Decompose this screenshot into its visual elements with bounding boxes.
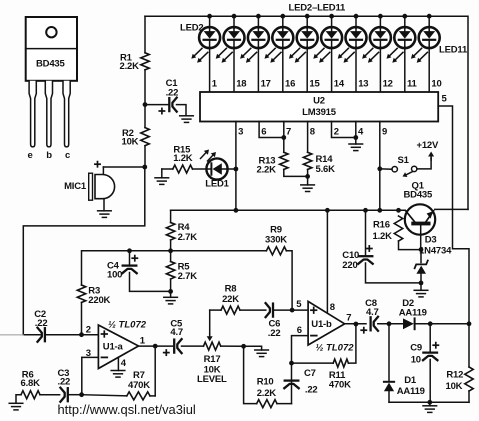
wire R13 bottom to R14 bottom [284,169,308,176]
svg-text:220K: 220K [88,295,110,306]
wire LED7 cathode to U2 pin [331,47,333,92]
wire mic branch down-left to C2 [23,167,145,335]
wire detector bottom rail [389,401,469,403]
wire U2 pin8 down [307,122,309,153]
wire U1-a output line [139,345,173,347]
LED1 emission arrows [201,153,206,159]
capacitor C4 100 [123,264,137,266]
resistor R9 330K [266,247,286,255]
node LED8 anode on bus [354,14,359,19]
node R1/R2/C1 [143,102,148,107]
ground below R5 [164,296,178,298]
wire U1-a inverting input [82,356,99,358]
svg-text:470K: 470K [128,380,150,391]
diode D1 AA119 [384,382,394,403]
svg-text:.22: .22 [268,328,281,339]
capacitor C5 4.7 [173,340,175,353]
wire bus to LED7 [331,16,333,28]
wire D3 to ground [420,283,422,290]
wire R3 bottom to pin2 line [81,302,83,334]
svg-text:8: 8 [310,127,315,138]
wire R10 to C7 bottom [277,403,292,405]
wire C5 to level pot [182,345,204,347]
wire pot to ground stub [221,345,244,347]
wire U2 pin5 to detector output (jog on right side) [438,106,469,324]
diode D2 AA119 [403,318,415,329]
wire bus to LED11 [428,16,430,28]
svg-text:LED2: LED2 [180,23,203,34]
svg-text:9: 9 [382,127,387,138]
wire U2 pin6 to pin7 [259,122,284,138]
ground below D3 [414,289,428,291]
wire C9 top [429,324,431,352]
svg-text:½ TL072: ½ TL072 [316,343,355,354]
op-amp driver IC U2 LM3915 box [200,92,438,122]
resistor R6 6.8K [21,391,40,399]
node Q1 base / D3 [419,247,424,252]
resistor R8 22K [221,306,240,314]
wire C8 to D2 [378,323,403,325]
svg-text:AA119: AA119 [397,386,425,397]
resistor R15 1.2K [173,165,193,173]
node R17/R10/ground [241,344,246,349]
node C3/R7 [79,392,84,397]
node R2/MIC1 [142,165,147,170]
wire feedback from output node down to R7 [154,346,156,396]
LED LED1 (points left) [206,158,227,179]
wire U2 pin9 down to S1 node and rail [379,122,381,211]
wire C10 top [365,210,367,255]
svg-text:U1-b: U1-b [311,319,332,330]
svg-text:c: c [65,150,70,161]
wire LED1 to pin3 column [227,168,236,170]
capacitor C8 4.7 [369,317,371,330]
wire node to ground [244,346,262,350]
svg-text:R8: R8 [225,284,237,295]
svg-text:D1: D1 [404,375,417,386]
svg-text:LED1: LED1 [205,179,229,190]
node LED6 anode on bus [305,14,310,19]
wire R15 ground stub [161,169,163,178]
wire S1 to +12V arrow [417,158,431,169]
wire wiper up and right to R8 [210,309,221,311]
LED LED3 [216,27,245,63]
svg-text:AA119: AA119 [399,307,427,318]
wire LED9 cathode to U2 pin [379,47,381,92]
svg-text:1: 1 [140,336,146,347]
wire LED3 cathode to U2 pin [233,47,235,92]
svg-text:.22: .22 [35,318,48,329]
svg-text:22K: 22K [222,294,239,305]
wire rail corner down to R4 [170,210,172,222]
svg-text:18: 18 [236,79,246,90]
svg-text:3: 3 [86,348,91,359]
svg-text:2.2K: 2.2K [257,164,277,175]
wire U1-b inverting input [292,336,309,404]
resistor R11 470K [333,359,348,367]
svg-text:8: 8 [330,302,335,313]
ground below C1 [180,115,194,117]
resistor R5 2.7K [166,262,174,280]
wire bus to LED2 [209,16,211,28]
transistor package drawing BD435 (TO-126 outline) [26,17,77,161]
wire U1-a pin4 to ground [117,358,119,371]
svg-text:16: 16 [285,79,295,90]
wire R9 right end down to U1-b pin5 node [286,251,292,310]
resistor R3 220K [77,285,85,302]
svg-text:MIC1: MIC1 [64,181,87,192]
resistor R4 2.7K [166,223,174,241]
wire LED10 cathode to U2 pin [404,47,406,92]
svg-text:4: 4 [121,358,127,369]
node LED7 anode on bus [329,14,334,19]
svg-text:1.2K: 1.2K [373,231,393,242]
wire C6 to U1-b pin5 [274,309,308,311]
node bottom rail ground [427,400,432,405]
wire LED anode bus (top) from R1 column to right edge down to Q1 emitter [145,16,468,209]
node R11/C7 feedback [289,361,294,366]
wire bus to LED8 [355,16,357,28]
wire R7 right lead [150,395,155,397]
wire C9 bottom to rail [429,360,431,403]
wire LED6 cathode to U2 pin [306,47,308,92]
svg-text:http://www.qsl.net/va3iul: http://www.qsl.net/va3iul [58,402,196,417]
wire R1 to C1 node [144,70,146,128]
wire C4 bottom to R5 bottom [130,273,171,292]
node C4 top [127,248,132,253]
potentiometer R17 10K LEVEL [204,342,221,350]
wire C1 node to cap [145,104,169,106]
LED LED10 [387,27,416,63]
svg-text:330K: 330K [265,235,287,246]
svg-text:2.2K: 2.2K [257,388,277,399]
wire U2 pin3 down to supply rail [235,122,237,211]
node LED9 anode on bus [378,14,383,19]
LED LED8 [338,27,367,63]
capacitor C9 10 [423,351,437,353]
svg-text:.22: .22 [305,385,318,396]
svg-text:6: 6 [261,127,266,138]
svg-text:10: 10 [411,354,421,365]
node R3/C2/pin2 [79,332,84,337]
svg-text:1N4734: 1N4734 [419,245,452,256]
wire V+ supply rail [171,209,406,211]
wire bias line (R3 top to R9) [82,251,267,285]
ground below R15 [155,177,169,179]
svg-text:2.2K: 2.2K [120,61,140,72]
svg-text:C7: C7 [304,368,316,379]
node U1-b output / R11 [354,322,359,327]
capacitor C10 220 [359,255,373,257]
svg-text:U2: U2 [313,96,325,107]
node D3/C10/ground [419,281,424,286]
wire R6 to C3 [40,394,60,396]
svg-text:4.7: 4.7 [170,327,183,338]
svg-text:3: 3 [238,127,243,138]
node rail/U1-b supply [325,208,330,213]
svg-text:2: 2 [334,127,339,138]
wire bus corner down to R1 [144,16,146,53]
wire U1-b supply pin8 from rail [326,210,328,312]
wire LED8 cathode to U2 pin [355,47,357,92]
svg-text:1: 1 [212,79,218,90]
capacitor C1 .22 [168,98,170,111]
wire R12 top lead [468,324,470,367]
wire D1 top [388,324,390,382]
zener diode D3 1N4734 [415,261,428,283]
svg-text:10: 10 [431,79,441,90]
svg-text:15: 15 [309,79,320,90]
svg-text:BD435: BD435 [404,190,433,201]
wire C4 top stub [129,251,131,265]
resistor R10 2.2K [257,400,277,408]
svg-text:1.2K: 1.2K [173,153,193,164]
svg-text:14: 14 [334,79,345,90]
wire Q1 emitter to right vertical [435,208,468,210]
svg-text:R12: R12 [446,370,463,381]
svg-text:6: 6 [297,325,302,336]
capacitor C7 .22 [285,379,299,381]
wire base node to zener [420,250,422,263]
faint scan line left of C2 [0,334,23,336]
LED LED11 [411,27,440,63]
svg-text:4.7: 4.7 [366,307,379,318]
svg-text:2: 2 [86,325,91,336]
wire U2 pin2 to pin4 [332,122,356,138]
svg-text:11: 11 [407,79,418,90]
svg-text:LED2–LED11: LED2–LED11 [289,3,347,14]
LED LED2 [191,27,220,63]
LED LED6 [289,27,318,63]
svg-text:220: 220 [342,260,357,271]
ground below pin4 [349,143,363,145]
node LED2 anode on bus [207,14,212,19]
node R4/R5 divider [168,248,173,253]
svg-text:17: 17 [261,79,271,90]
microphone MIC1 [64,162,115,211]
wire C1 to ground [177,105,187,116]
svg-text:2.7K: 2.7K [178,271,198,282]
svg-text:100: 100 [107,270,122,281]
svg-text:2.7K: 2.7K [178,232,198,243]
resistor R16 1.2K [394,216,402,241]
svg-text:10K: 10K [446,381,463,392]
wire bus to LED9 [379,16,381,28]
node R5/C4 bottom [168,289,173,294]
wire C10 bottom to D3 node [366,263,422,283]
node U1-a output / R7 feedback [153,344,158,349]
svg-text:6.8K: 6.8K [21,378,41,389]
wire U2 pin4 to ground [355,122,357,145]
wire C3 node up to pin3 [81,357,83,394]
svg-text:7: 7 [346,313,351,324]
ground bottom right [423,405,437,407]
node LED10 anode on bus [402,14,407,19]
wire R15 to LED1 [193,168,207,170]
ground right of R17 [255,349,269,351]
svg-text:C9: C9 [410,342,422,353]
wire LED5 cathode to U2 pin [282,47,284,92]
node rail/C10 [363,208,368,213]
svg-text:LEVEL: LEVEL [197,374,227,385]
capacitor C6 .22 [266,303,270,317]
wire R12 bottom lead [468,391,470,402]
wire C2 to U1-a noninverting input [46,334,99,336]
op-amp U1-a 1/2 TL072 [98,325,138,369]
svg-text:470K: 470K [329,380,351,391]
resistor R2 10K [141,128,149,146]
wire LED2 cathode to U2 pin [209,47,211,92]
svg-text:U1-a: U1-a [103,342,124,353]
wire R16 bottom to base node [399,241,421,250]
wire R2 to MIC node [144,146,146,167]
node R13/R14 junction [305,174,310,179]
wire R7 left to C3 node [82,395,127,396]
wire D2 to R12 node [415,323,469,325]
node pin9/rail [377,208,382,213]
wire R14 to ground [307,169,309,185]
resistor R7 470K [127,392,150,400]
svg-text:.22: .22 [166,88,179,99]
node D2/C9 [428,321,433,326]
svg-text:b: b [46,150,52,161]
wire bus to LED3 [233,16,235,28]
resistor R12 10K [465,367,473,391]
wire LED4 cathode to U2 pin [257,47,259,92]
node C8/D2/D1 [387,321,392,326]
svg-text:e: e [27,150,32,161]
LED LED7 [313,27,342,63]
node pin3/LED1 [234,167,239,172]
svg-text:13: 13 [358,79,368,90]
svg-text:5.6K: 5.6K [316,164,336,175]
svg-text:+12V: +12V [417,140,440,151]
svg-text:R17: R17 [204,354,221,365]
transistor Q1 BD435 [405,204,435,249]
wire into C2 [23,334,40,336]
node pin3/rail [234,208,239,213]
svg-text:7: 7 [286,127,291,138]
svg-text:.22: .22 [58,377,71,388]
LED LED9 [362,27,391,63]
node U1-b pin5 [290,308,295,313]
wire R11 feedback [348,324,356,363]
node LED11 anode on bus [427,14,432,19]
wire bus to LED4 [257,16,259,28]
node detector/R12 [467,321,472,326]
node LED4 anode on bus [256,14,261,19]
svg-text:BD435: BD435 [36,59,65,70]
resistor R1 2.2K [141,53,149,70]
node pin6/pin7 [281,135,286,140]
wire LED11 cathode to U2 pin [428,47,430,92]
ground below R13/R14 [301,184,315,186]
node LED3 anode on bus [232,14,237,19]
svg-text:R10: R10 [257,377,274,388]
wire bus to LED5 [282,16,284,28]
op-amp U1-b 1/2 TL072 [308,301,345,345]
resistor R13 2.2K [280,152,288,169]
svg-text:S1: S1 [398,155,410,166]
svg-text:R16: R16 [373,220,390,231]
svg-text:12: 12 [383,79,393,90]
wire gnd to R15 [162,168,173,170]
capacitor C3 .22 [60,388,64,402]
wire R8 to C6 [240,309,266,311]
node LED5 anode on bus [280,14,285,19]
R17 wiper arrow [209,310,211,334]
wire R6 to ground [16,395,21,404]
wire R4 to divider node [170,240,172,262]
wire bus to LED6 [306,16,308,28]
node pin9/S1 [377,166,382,171]
wire C3 to node [68,394,82,396]
node pin2/pin4 [353,135,358,140]
ground below R6 [9,402,23,404]
svg-text:LM3915: LM3915 [302,107,337,118]
wire bottom ground stub [429,402,431,406]
wire MIC node to mic [103,166,144,168]
resistor R14 5.6K [303,152,311,169]
ground below MIC1 [98,210,112,212]
svg-text:D3: D3 [425,235,437,246]
ground below U1-a pin4 [111,370,125,372]
switch S1 [380,166,417,177]
LED LED4 [240,27,269,63]
svg-text:10K: 10K [122,136,139,147]
wire R17 node down to R10 [244,346,257,403]
wire R5 to ground [170,279,172,297]
wire U1-b output [345,323,366,325]
+12V supply arrow [430,157,432,161]
wire bus to LED10 [404,16,406,28]
wire U2 pin7 down [283,122,285,153]
node rail/R16 [396,208,401,213]
wire R11 to C7 node [292,362,334,364]
capacitor C2 .22 [38,328,42,342]
svg-text:½ TL072: ½ TL072 [108,320,147,331]
svg-text:LED11: LED11 [439,45,468,56]
LED LED5 [265,27,294,63]
